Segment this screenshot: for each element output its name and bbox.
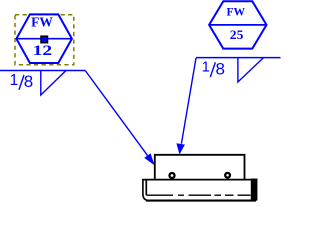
centerline (dash-dot) [147, 194, 251, 196]
svg-text:FW: FW [31, 15, 53, 30]
svg-text:12: 12 [33, 43, 53, 59]
svg-text:1: 1 [10, 72, 19, 89]
upper block outline [155, 155, 245, 180]
svg-text:1: 1 [202, 59, 210, 75]
plate bottom edge [146, 200, 256, 202]
svg-text:FW: FW [227, 6, 246, 18]
svg-text:8: 8 [24, 72, 33, 91]
label 1/8 (left): slash [19, 75, 24, 90]
right leader arrowhead [176, 143, 185, 154]
grip square at left symbol center [41, 36, 48, 43]
hexagon FW 12 [16, 14, 72, 63]
hexagon FW 25 middle line [209, 24, 266, 26]
svg-text:25: 25 [230, 28, 244, 42]
plate top edge [142, 179, 257, 181]
label 1/8 (right): slash [210, 62, 215, 77]
plate right end cap [251, 179, 258, 201]
left weld callout reference line [0, 70, 85, 72]
right weld callout reference line [196, 57, 281, 59]
left fillet weld triangle [41, 71, 66, 96]
right fillet weld triangle [238, 58, 264, 82]
left leader arrowhead [144, 153, 155, 165]
hexagon FW 12 middle line [16, 38, 72, 40]
svg-text:8: 8 [216, 59, 225, 78]
plate left outer edge with rounded corner [143, 180, 148, 201]
hexagon FW 25 [209, 1, 266, 48]
weld dot left [170, 173, 175, 178]
weld dot right [225, 173, 230, 178]
plate left inner tangent line [145, 180, 147, 196]
left leader line [85, 71, 148, 157]
right leader line [181, 58, 196, 144]
selection box (dashed) around left weld symbol [15, 15, 74, 65]
